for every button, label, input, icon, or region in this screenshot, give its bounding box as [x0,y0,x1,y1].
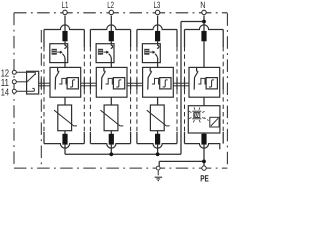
svg-text:L2: L2 [107,0,114,10]
svg-text:14: 14 [1,87,10,98]
svg-text:N: N [200,0,205,10]
svg-text:PE: PE [200,173,209,183]
svg-text:L1: L1 [62,0,69,10]
svg-text:L3: L3 [154,0,161,10]
